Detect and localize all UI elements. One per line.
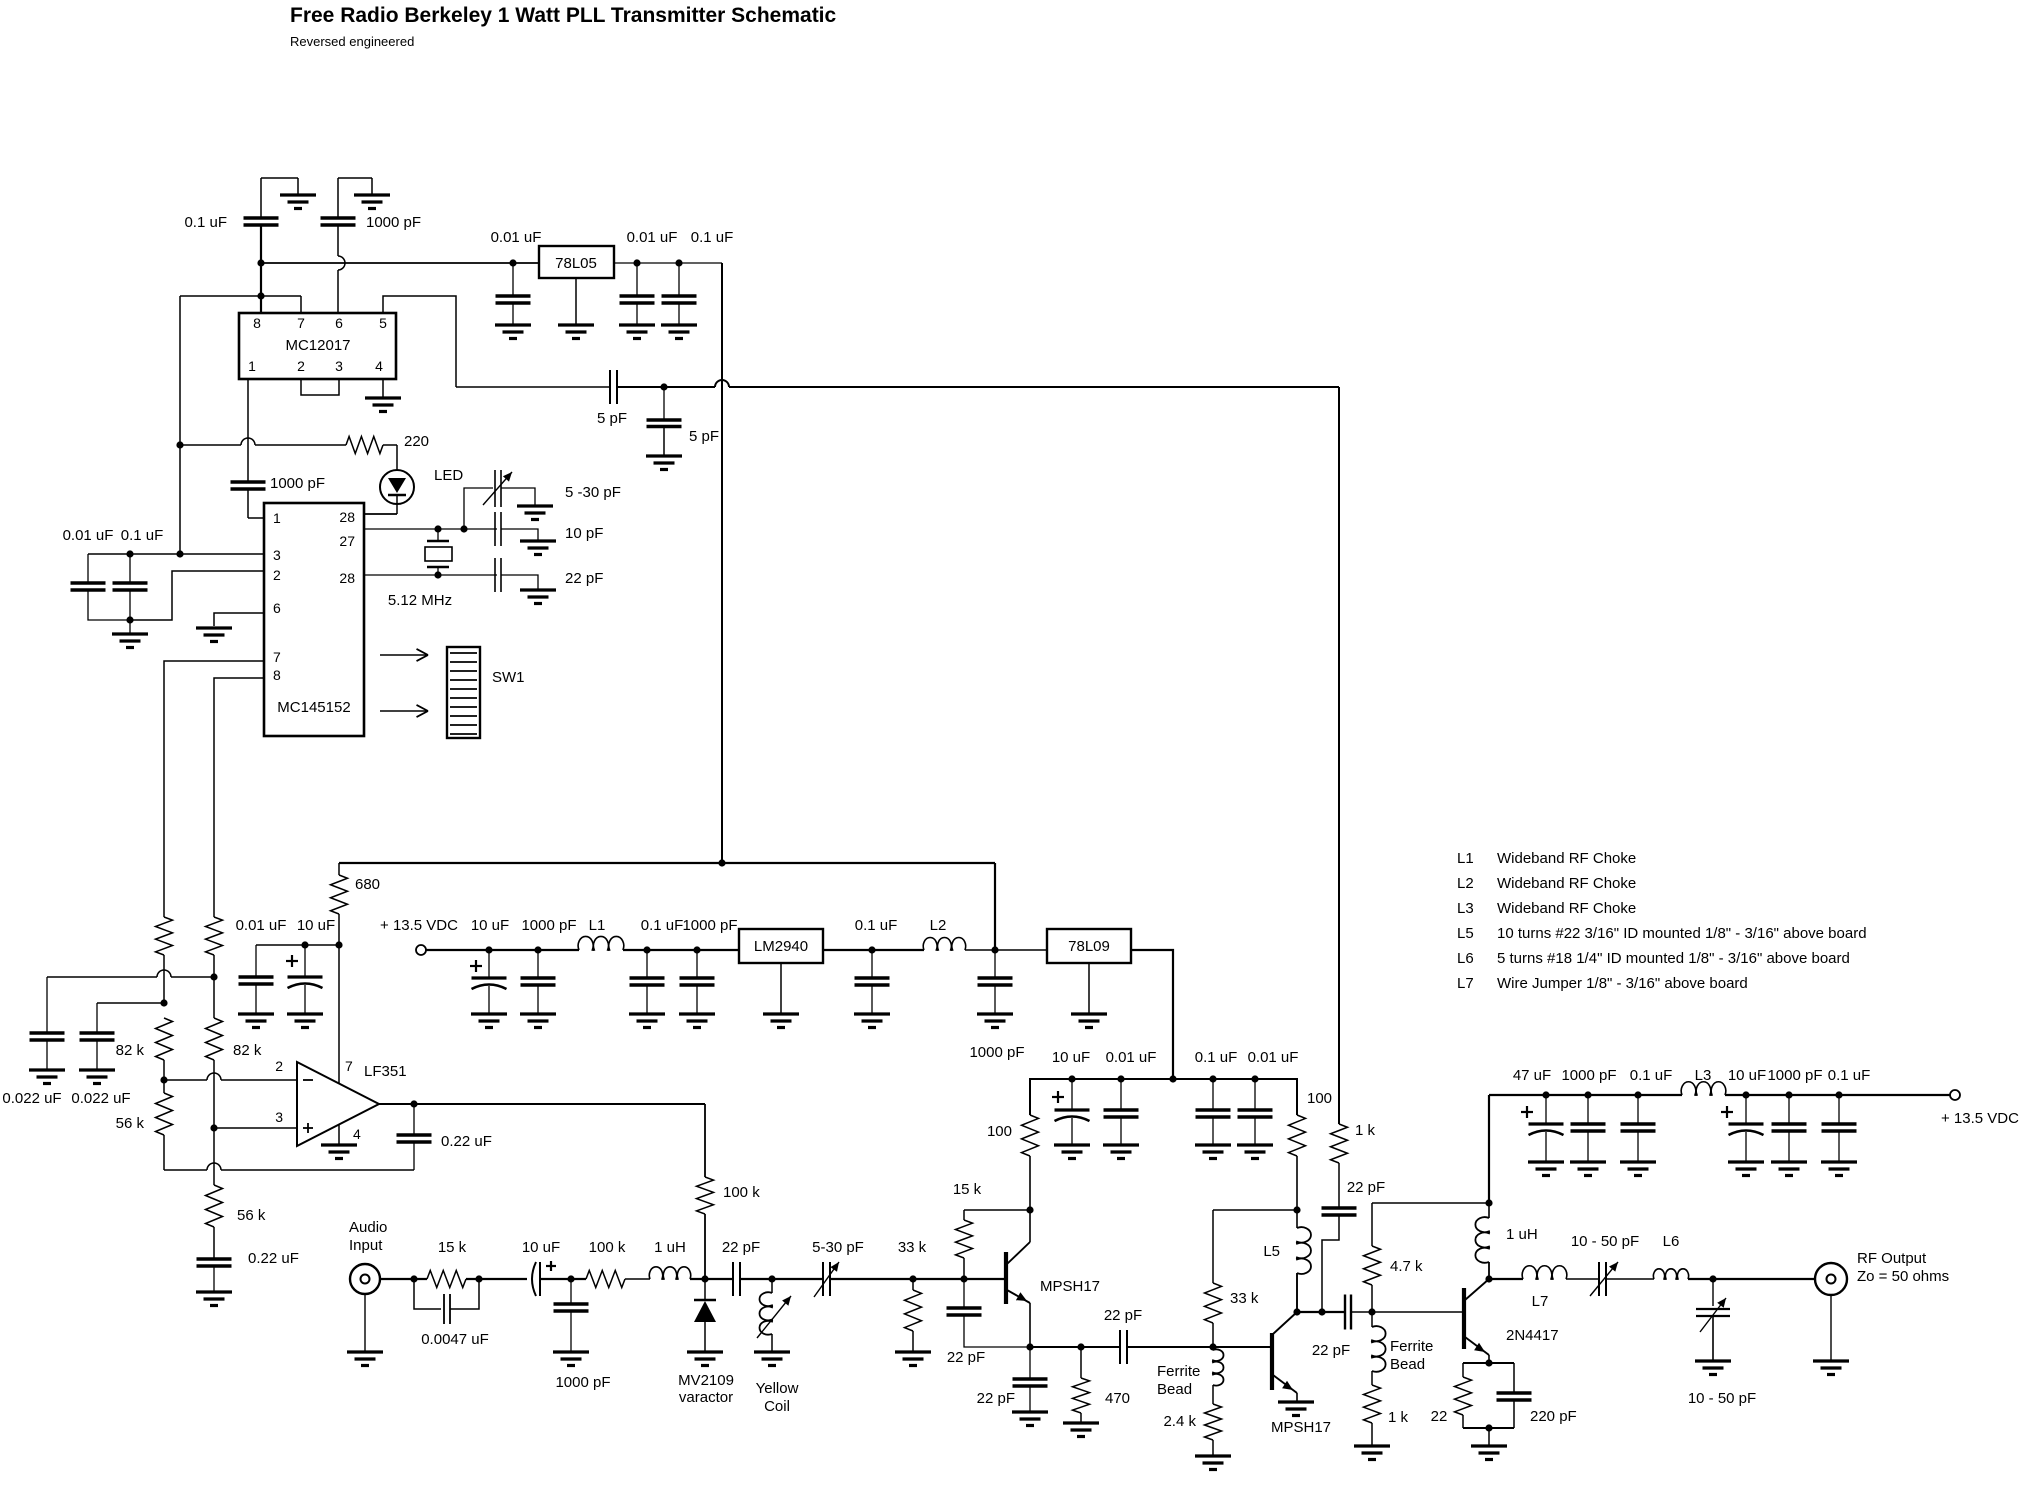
node (220 net / left vertical) — [176, 441, 183, 448]
wire coupling to driver base — [1351, 1311, 1464, 1313]
ground (0.1 uF PA) — [1620, 1162, 1656, 1176]
wire base to Q1 — [913, 1278, 1006, 1280]
legend L6 — [1457, 950, 1850, 967]
capacitor 0.1 uF (MC12017 bypass) — [184, 178, 278, 313]
legend L2 — [1457, 875, 1636, 892]
resistor 22 — [1431, 1377, 1472, 1428]
ground (1000 pF bypass) — [338, 178, 390, 209]
ground (10 uF op-amp) — [287, 1014, 323, 1028]
node (1000 pF PA 2) — [1785, 1091, 1792, 1098]
svg-text:10 uF: 10 uF — [1052, 1049, 1090, 1066]
capacitor 0.022 uF #2 — [71, 1003, 130, 1107]
wire trimmer to L6 — [1606, 1278, 1654, 1280]
wire rail to L1 — [426, 949, 579, 951]
wire to op-amp pin 2 — [164, 1073, 297, 1080]
wire Q2 collector row — [1297, 1311, 1345, 1313]
inductor 1 uH (collector) — [1475, 1203, 1537, 1279]
svg-text:22 pF: 22 pF — [1312, 1342, 1350, 1359]
capacitor 0.01 uF (78L05 output) — [620, 229, 678, 325]
svg-text:Free Radio Berkeley 1 Watt PLL: Free Radio Berkeley 1 Watt PLL Transmitt… — [290, 4, 837, 27]
svg-text:680: 680 — [355, 876, 380, 893]
capacitor 0.22 uF (lower) — [197, 1250, 299, 1292]
wire 0.022uF #2 line — [97, 1002, 164, 1004]
svg-text:2: 2 — [273, 567, 281, 583]
node (0.01 uF / rail) — [509, 259, 516, 266]
node (output tank) — [1709, 1275, 1716, 1282]
inductor L2 — [923, 917, 965, 950]
node (0.1 uF buffer) — [1209, 1075, 1216, 1082]
svg-text:5: 5 — [379, 315, 387, 331]
resistor 4.7 k — [1364, 1203, 1424, 1312]
capacitor 220 pF — [1497, 1393, 1577, 1428]
wire 15k to 10uF — [466, 1278, 527, 1280]
wire pin 28 to LED — [364, 513, 397, 515]
LED — [364, 445, 463, 514]
wire pin 6 to ground — [214, 613, 264, 626]
resistor 1 k (driver base) — [1364, 1385, 1409, 1446]
capacitor 22 pF (VCO coupling) — [722, 1239, 760, 1296]
ground (470) — [1063, 1423, 1099, 1437]
svg-text:22: 22 — [1431, 1408, 1448, 1425]
svg-text:10 - 50 pF: 10 - 50 pF — [1688, 1390, 1756, 1407]
capacitor 5-30 pF (trimmer) — [483, 470, 621, 507]
wire pin 27 crystal line — [364, 528, 497, 530]
wire 0.022uF #1 line — [47, 970, 214, 977]
node (0.1 uF out rail) — [1634, 1091, 1641, 1098]
svg-text:SW1: SW1 — [492, 669, 525, 686]
wire 220 resistor net — [180, 438, 346, 445]
svg-text:10 uF: 10 uF — [297, 917, 335, 934]
svg-text:+ 13.5 VDC: + 13.5 VDC — [1941, 1110, 2019, 1127]
svg-text:L6: L6 — [1663, 1233, 1680, 1250]
ground (LM2940) — [763, 963, 799, 1028]
capacitor 22 pF (crystal) — [495, 558, 603, 592]
wire L7 to trimmer — [1566, 1278, 1599, 1280]
capacitor 10 uF (buffer) — [1052, 1049, 1090, 1145]
svg-text:0.01 uF: 0.01 uF — [627, 229, 678, 246]
crystal 5.12 MHz — [388, 529, 452, 609]
wire 13.5V to 1 uH — [1488, 1095, 1490, 1203]
node (L5 top) — [1293, 1206, 1300, 1213]
ground (Q3 emitter) — [1471, 1446, 1507, 1460]
wire MC12017 pins 2-3 bridge — [301, 379, 339, 395]
svg-text:5 turns #18 1/4" ID mounted 1/: 5 turns #18 1/4" ID mounted 1/8" - 3/16"… — [1497, 950, 1850, 967]
capacitor 10 uF (rail input) — [470, 917, 509, 1014]
svg-text:22 pF: 22 pF — [977, 1390, 1015, 1407]
svg-text:Wideband RF Choke: Wideband RF Choke — [1497, 850, 1636, 867]
svg-text:RF Output: RF Output — [1857, 1250, 1927, 1267]
capacitor 22 pF (Q2 coupling) — [1312, 1295, 1351, 1360]
node (pin3/left vertical) — [176, 550, 183, 557]
wire 4.7 k top row — [1372, 1202, 1489, 1204]
svg-text:28: 28 — [339, 509, 355, 525]
capacitor 0.022 uF #1 — [2, 977, 64, 1107]
svg-text:LM2940: LM2940 — [754, 938, 808, 955]
capacitor 1000 pF (pin 1) — [231, 475, 326, 518]
resistor 56 k (lower) — [206, 1185, 266, 1259]
wire 10 pF to ground — [501, 529, 538, 541]
ground (0.022 uF #2) — [79, 1070, 115, 1084]
terminal + 13.5 VDC (right) — [1941, 1090, 2019, 1127]
svg-text:33 k: 33 k — [898, 1239, 927, 1256]
svg-text:L7: L7 — [1532, 1293, 1549, 1310]
wire feedback bottom — [164, 1163, 414, 1170]
wire MC12017 pin 5 to 5 pF line — [383, 296, 456, 387]
svg-text:MV2109: MV2109 — [678, 1372, 734, 1389]
svg-text:1: 1 — [273, 510, 281, 526]
node (470 tap) — [1077, 1343, 1084, 1350]
legend L7 — [1457, 975, 1748, 992]
svg-text:L3: L3 — [1695, 1067, 1712, 1084]
svg-text:L5: L5 — [1457, 925, 1474, 942]
node (15 k right) — [475, 1275, 482, 1282]
node (15 k left) — [410, 1275, 417, 1282]
legend L5 — [1457, 925, 1867, 942]
node (pin3/0.1uF) — [126, 550, 133, 557]
svg-text:100: 100 — [987, 1123, 1012, 1140]
transistor Q3 2N4417 — [1464, 1279, 1559, 1363]
resistor 100 (Q1 collector) — [987, 1115, 1039, 1210]
svg-text:Reversed engineered: Reversed engineered — [290, 34, 414, 49]
inductor L3 — [1681, 1067, 1726, 1095]
wire trimmer to base node — [830, 1278, 913, 1280]
capacitor 22 pF (interstage) — [1104, 1307, 1142, 1364]
svg-text:0.22 uF: 0.22 uF — [248, 1250, 299, 1267]
capacitor 10 - 50 pF (shunt trimmer) — [1688, 1279, 1756, 1407]
ground (0.1 uF buffer) — [1195, 1145, 1231, 1159]
svg-text:5.12 MHz: 5.12 MHz — [388, 592, 452, 609]
ground (2.4 k) — [1195, 1456, 1231, 1470]
ground (1000 pF PA 2) — [1771, 1162, 1807, 1176]
ground (0.1 uF PA 2) — [1821, 1162, 1857, 1176]
svg-text:10 uF: 10 uF — [1728, 1067, 1766, 1084]
svg-text:220: 220 — [404, 433, 429, 450]
svg-text:0.1 uF: 0.1 uF — [1828, 1067, 1871, 1084]
resistor 680 — [331, 863, 381, 945]
capacitor 0.01 uF (op-amp supply) — [236, 917, 287, 1014]
wire 10uF to 100k — [540, 1278, 586, 1280]
capacitor 0.22 uF (output) — [397, 1104, 492, 1170]
ground (1000 pF mid) — [679, 1014, 715, 1028]
node (Q3 emitter) — [1485, 1359, 1492, 1366]
svg-text:7: 7 — [273, 649, 281, 665]
svg-text:10 turns #22 3/16" ID mounted: 10 turns #22 3/16" ID mounted 1/8" - 3/1… — [1497, 925, 1867, 942]
capacitor 0.1 uF (PA rail) — [1621, 1067, 1673, 1162]
svg-text:1000 pF: 1000 pF — [555, 1374, 610, 1391]
svg-text:100 k: 100 k — [723, 1184, 760, 1201]
node (op-amp pin3 net) — [210, 1060, 217, 1185]
ground (varactor) — [687, 1352, 723, 1366]
svg-text:100 k: 100 k — [589, 1239, 626, 1256]
node (0.1 uF mid) — [643, 946, 650, 953]
ground (0.01 uF output cap) — [619, 325, 655, 339]
svg-text:0.1 uF: 0.1 uF — [1630, 1067, 1673, 1084]
svg-text:22 pF: 22 pF — [722, 1239, 760, 1256]
capacitor 22 pF (control) — [1322, 1179, 1386, 1312]
inductor 1 uH (audio) — [649, 1239, 690, 1279]
svg-text:0.1 uF: 0.1 uF — [1195, 1049, 1238, 1066]
capacitor 10 pF — [495, 512, 603, 546]
resistor 33 k (Q2) — [1205, 1210, 1259, 1347]
resistor 470 — [1073, 1347, 1131, 1423]
svg-text:22 pF: 22 pF — [1347, 1179, 1385, 1196]
svg-text:0.01 uF: 0.01 uF — [491, 229, 542, 246]
svg-text:100: 100 — [1307, 1090, 1332, 1107]
svg-text:0.22 uF: 0.22 uF — [441, 1133, 492, 1150]
ground (22 pF Q1 emitter) — [1012, 1412, 1048, 1426]
node (5 pF shunt) — [660, 383, 667, 390]
svg-text:1 uH: 1 uH — [1506, 1226, 1538, 1243]
ground (crystal 22 pF) — [520, 590, 556, 604]
svg-text:+ 13.5 VDC: + 13.5 VDC — [380, 917, 458, 934]
resistor 220 — [346, 433, 429, 454]
capacitor 1000 pF (LM2940 in) — [680, 917, 738, 1014]
svg-text:3: 3 — [273, 547, 281, 563]
node (0.1 uF after LM2940) — [868, 946, 875, 953]
svg-text:1000 pF: 1000 pF — [1561, 1067, 1616, 1084]
wire output supply rail — [1489, 1094, 1682, 1096]
svg-text:0.1 uF: 0.1 uF — [641, 917, 684, 934]
IC U3 MC145152 — [264, 503, 364, 736]
node (pin8 ladder tap) — [210, 973, 217, 980]
wire 78L09 output — [1131, 950, 1173, 1079]
wire RF line — [1489, 1278, 1523, 1280]
ground (1000 pF 78L09 in) — [977, 1014, 1013, 1028]
ground (78L05 input cap) — [495, 325, 531, 339]
node (Q1 collector net) — [1026, 1206, 1033, 1213]
wire 1uH to varactor node — [690, 1278, 733, 1280]
ground (MC12017 pin 4) — [365, 379, 401, 412]
arrow to SW1 (bottom) — [380, 705, 428, 717]
svg-text:82 k: 82 k — [233, 1042, 262, 1059]
svg-text:2.4 k: 2.4 k — [1163, 1413, 1196, 1430]
capacitor 1000 pF (audio) — [554, 1279, 611, 1391]
node (crystal bottom) — [434, 571, 441, 578]
wire L1 to LM2940 — [623, 949, 739, 951]
wire L2 to 78L09 — [965, 949, 1047, 951]
ground (1000 pF PA) — [1570, 1162, 1606, 1176]
capacitor 5 pF (shunt) — [647, 387, 720, 456]
svg-text:0.01 uF: 0.01 uF — [236, 917, 287, 934]
ground (left caps) — [112, 620, 148, 648]
wire L6 to output — [1688, 1278, 1815, 1280]
svg-text:82 k: 82 k — [116, 1042, 145, 1059]
capacitor 47 uF — [1513, 1067, 1564, 1162]
ground (trimmer) — [517, 506, 553, 520]
ferrite bead (Q2 base) — [1157, 1347, 1224, 1404]
node (emitter network) — [1485, 1424, 1492, 1431]
svg-text:7: 7 — [345, 1058, 353, 1074]
svg-text:10 pF: 10 pF — [565, 525, 603, 542]
svg-text:Input: Input — [349, 1237, 383, 1254]
node (Q1 emitter) — [1026, 1343, 1033, 1350]
ferrite bead (driver base) — [1372, 1312, 1434, 1385]
ground (shunt trimmer) — [1695, 1361, 1731, 1375]
IC U1 MC12017 — [239, 313, 396, 379]
capacitor 0.1 uF (PA rail 2) — [1822, 1067, 1871, 1162]
ground (1000 pF rail) — [520, 1014, 556, 1028]
svg-text:28: 28 — [339, 570, 355, 586]
wire emitter join — [1463, 1428, 1514, 1446]
capacitor 1000 pF (MC12017 bypass) — [321, 178, 422, 231]
wire emitter row — [1030, 1346, 1120, 1348]
svg-text:220 pF: 220 pF — [1530, 1408, 1577, 1425]
wire 100k to 1uH — [625, 1278, 650, 1280]
svg-text:0.1 uF: 0.1 uF — [855, 917, 898, 934]
svg-text:4: 4 — [353, 1126, 361, 1142]
resistor 82 k (left) — [116, 1018, 173, 1060]
svg-text:LF351: LF351 — [364, 1063, 407, 1080]
capacitor 10 uF (op-amp supply) — [286, 917, 335, 1014]
svg-text:MPSH17: MPSH17 — [1271, 1419, 1331, 1436]
ground (10 uF PA) — [1728, 1162, 1764, 1176]
capacitor 10 uF (PA rail) — [1721, 1067, 1766, 1162]
node (78L09 9V feed) — [1169, 1075, 1176, 1082]
transistor Q2 MPSH17 — [1271, 1312, 1331, 1436]
svg-text:0.01 uF: 0.01 uF — [1248, 1049, 1299, 1066]
node (1 uH top) — [1485, 1199, 1492, 1206]
wire L5 row — [1213, 1209, 1297, 1211]
node (driver feed) — [1368, 1308, 1375, 1315]
svg-text:L1: L1 — [1457, 850, 1474, 867]
svg-text:6: 6 — [273, 600, 281, 616]
node (Q3 collector) — [1485, 1275, 1492, 1282]
svg-text:1 k: 1 k — [1388, 1409, 1409, 1426]
wire emitter split — [1463, 1363, 1514, 1393]
wire trimmer branch up — [464, 488, 493, 529]
svg-text:0.0047 uF: 0.0047 uF — [421, 1331, 489, 1348]
svg-text:L7: L7 — [1457, 975, 1474, 992]
node (0.01 uF buffer) — [1117, 1075, 1124, 1082]
wire pin 2 line — [130, 571, 264, 620]
wire L3 to terminal — [1725, 1094, 1950, 1096]
ground (op-amp pin 4) — [321, 1125, 357, 1159]
node (1000 pF out) — [1584, 1091, 1591, 1098]
svg-text:8: 8 — [253, 315, 261, 331]
node (10 uF PA) — [1742, 1091, 1749, 1098]
svg-text:10 uF: 10 uF — [471, 917, 509, 934]
svg-text:0.022 uF: 0.022 uF — [71, 1090, 130, 1107]
capacitor 0.1 uF (LM2940 out) — [855, 917, 898, 1014]
svg-text:0.1 uF: 0.1 uF — [121, 527, 164, 544]
capacitor 0.1 uF (LM2940 in) — [630, 917, 684, 1014]
capacitor 0.01 uF (buffer 2) — [1238, 1049, 1299, 1145]
svg-text:5 pF: 5 pF — [597, 410, 627, 427]
svg-text:3: 3 — [335, 358, 343, 374]
wire op-amp output — [379, 1103, 705, 1105]
connector RF output — [1815, 1250, 1949, 1295]
capacitor 5-30 pF (VCO series trimmer) — [812, 1239, 864, 1297]
wire crystal bottom line — [364, 574, 497, 576]
node (47 uF) — [1542, 1091, 1549, 1098]
svg-text:1: 1 — [248, 358, 256, 374]
wire Vcc rail to 78L05 — [261, 262, 539, 264]
svg-text:1000 pF: 1000 pF — [270, 475, 325, 492]
ground (0.01 uF buffer 2) — [1237, 1145, 1273, 1159]
ground (Q2 emitter) — [1278, 1402, 1314, 1416]
ground (78L05) — [558, 278, 594, 339]
inductor L5 — [1263, 1210, 1311, 1312]
svg-text:78L05: 78L05 — [555, 255, 597, 272]
svg-text:L2: L2 — [1457, 875, 1474, 892]
svg-text:0.01 uF: 0.01 uF — [63, 527, 114, 544]
svg-text:4.7 k: 4.7 k — [1390, 1258, 1423, 1275]
wire left vertical to pin3 net — [179, 296, 181, 554]
inductor L6 — [1653, 1233, 1688, 1279]
capacitor 0.1 uF (left) — [113, 527, 164, 620]
capacitor 1000 pF (78L09 in) — [969, 950, 1024, 1061]
resistor 82 k (right) — [206, 1018, 262, 1060]
wire MC12017 pin 1 down — [247, 379, 249, 482]
svg-text:2: 2 — [297, 358, 305, 374]
node (Q1 base) — [960, 1275, 967, 1282]
ground (1000 pF audio) — [553, 1352, 589, 1366]
node (0.01 uF out) — [633, 259, 640, 266]
svg-text:Wideband RF Choke: Wideband RF Choke — [1497, 900, 1636, 917]
svg-text:22 pF: 22 pF — [947, 1349, 985, 1366]
wire 22 pF to ground — [501, 575, 538, 590]
wire pin 7 line — [164, 661, 264, 917]
svg-text:22 pF: 22 pF — [1104, 1307, 1142, 1324]
wire RF connector ground — [1830, 1295, 1832, 1361]
wire audio connector ground — [364, 1294, 366, 1352]
svg-text:Ferrite: Ferrite — [1390, 1338, 1433, 1355]
ground (0.01 uF buffer) — [1103, 1145, 1139, 1159]
capacitor 1000 pF (PA rail 2) — [1767, 1067, 1822, 1162]
capacitor 10 uF (audio coupling) — [522, 1239, 560, 1296]
svg-text:Zo = 50 ohms: Zo = 50 ohms — [1857, 1268, 1949, 1285]
svg-text:0.1 uF: 0.1 uF — [691, 229, 734, 246]
svg-text:6: 6 — [335, 315, 343, 331]
svg-text:470: 470 — [1105, 1390, 1130, 1407]
wire 22 pF to Q2 base — [1127, 1346, 1272, 1348]
svg-text:27: 27 — [339, 533, 355, 549]
wire pin7 to pin8 net — [180, 295, 301, 297]
ground (78L09) — [1071, 963, 1107, 1028]
svg-text:56 k: 56 k — [116, 1115, 145, 1132]
ground (RF connector) — [1813, 1361, 1849, 1375]
wire LM2940 to L2 — [823, 949, 924, 951]
svg-text:L1: L1 — [589, 917, 606, 934]
svg-text:Bead: Bead — [1157, 1381, 1192, 1398]
svg-text:10 - 50 pF: 10 - 50 pF — [1571, 1233, 1639, 1250]
resistor 1 k (from control line) — [1331, 1122, 1376, 1208]
wire 78L05 5V vertical — [721, 263, 723, 863]
capacitor 0.0047 uF (parallel) — [414, 1279, 489, 1348]
resistor (pin7 divider top) — [156, 917, 173, 1003]
node (0.1 uF PA 2) — [1835, 1091, 1842, 1098]
capacitor 1000 pF (PA rail) — [1561, 1067, 1616, 1162]
svg-text:MPSH17: MPSH17 — [1040, 1278, 1100, 1295]
capacitor 0.01 uF (buffer) — [1104, 1049, 1157, 1145]
svg-text:15 k: 15 k — [438, 1239, 467, 1256]
capacitor 0.1 uF (78L05 output) — [662, 229, 734, 325]
svg-text:2N4417: 2N4417 — [1506, 1327, 1559, 1344]
ground (10 uF rail) — [471, 1014, 507, 1028]
node (10 uF buffer) — [1068, 1075, 1075, 1082]
svg-text:L2: L2 — [930, 917, 947, 934]
resistor (pin8 divider top) — [206, 917, 223, 1018]
wire 5V rail to regulator rail — [339, 862, 995, 864]
svg-text:22 pF: 22 pF — [565, 570, 603, 587]
node (47uF... 10 uF rail) — [485, 946, 492, 953]
wire 78L05 output — [614, 262, 722, 264]
wire 15 k feed — [964, 1209, 1030, 1211]
node (yellow coil) — [768, 1275, 775, 1282]
resistor 100 k (loop filter) — [697, 1104, 761, 1279]
svg-text:78L09: 78L09 — [1068, 938, 1110, 955]
svg-text:varactor: varactor — [679, 1389, 733, 1406]
